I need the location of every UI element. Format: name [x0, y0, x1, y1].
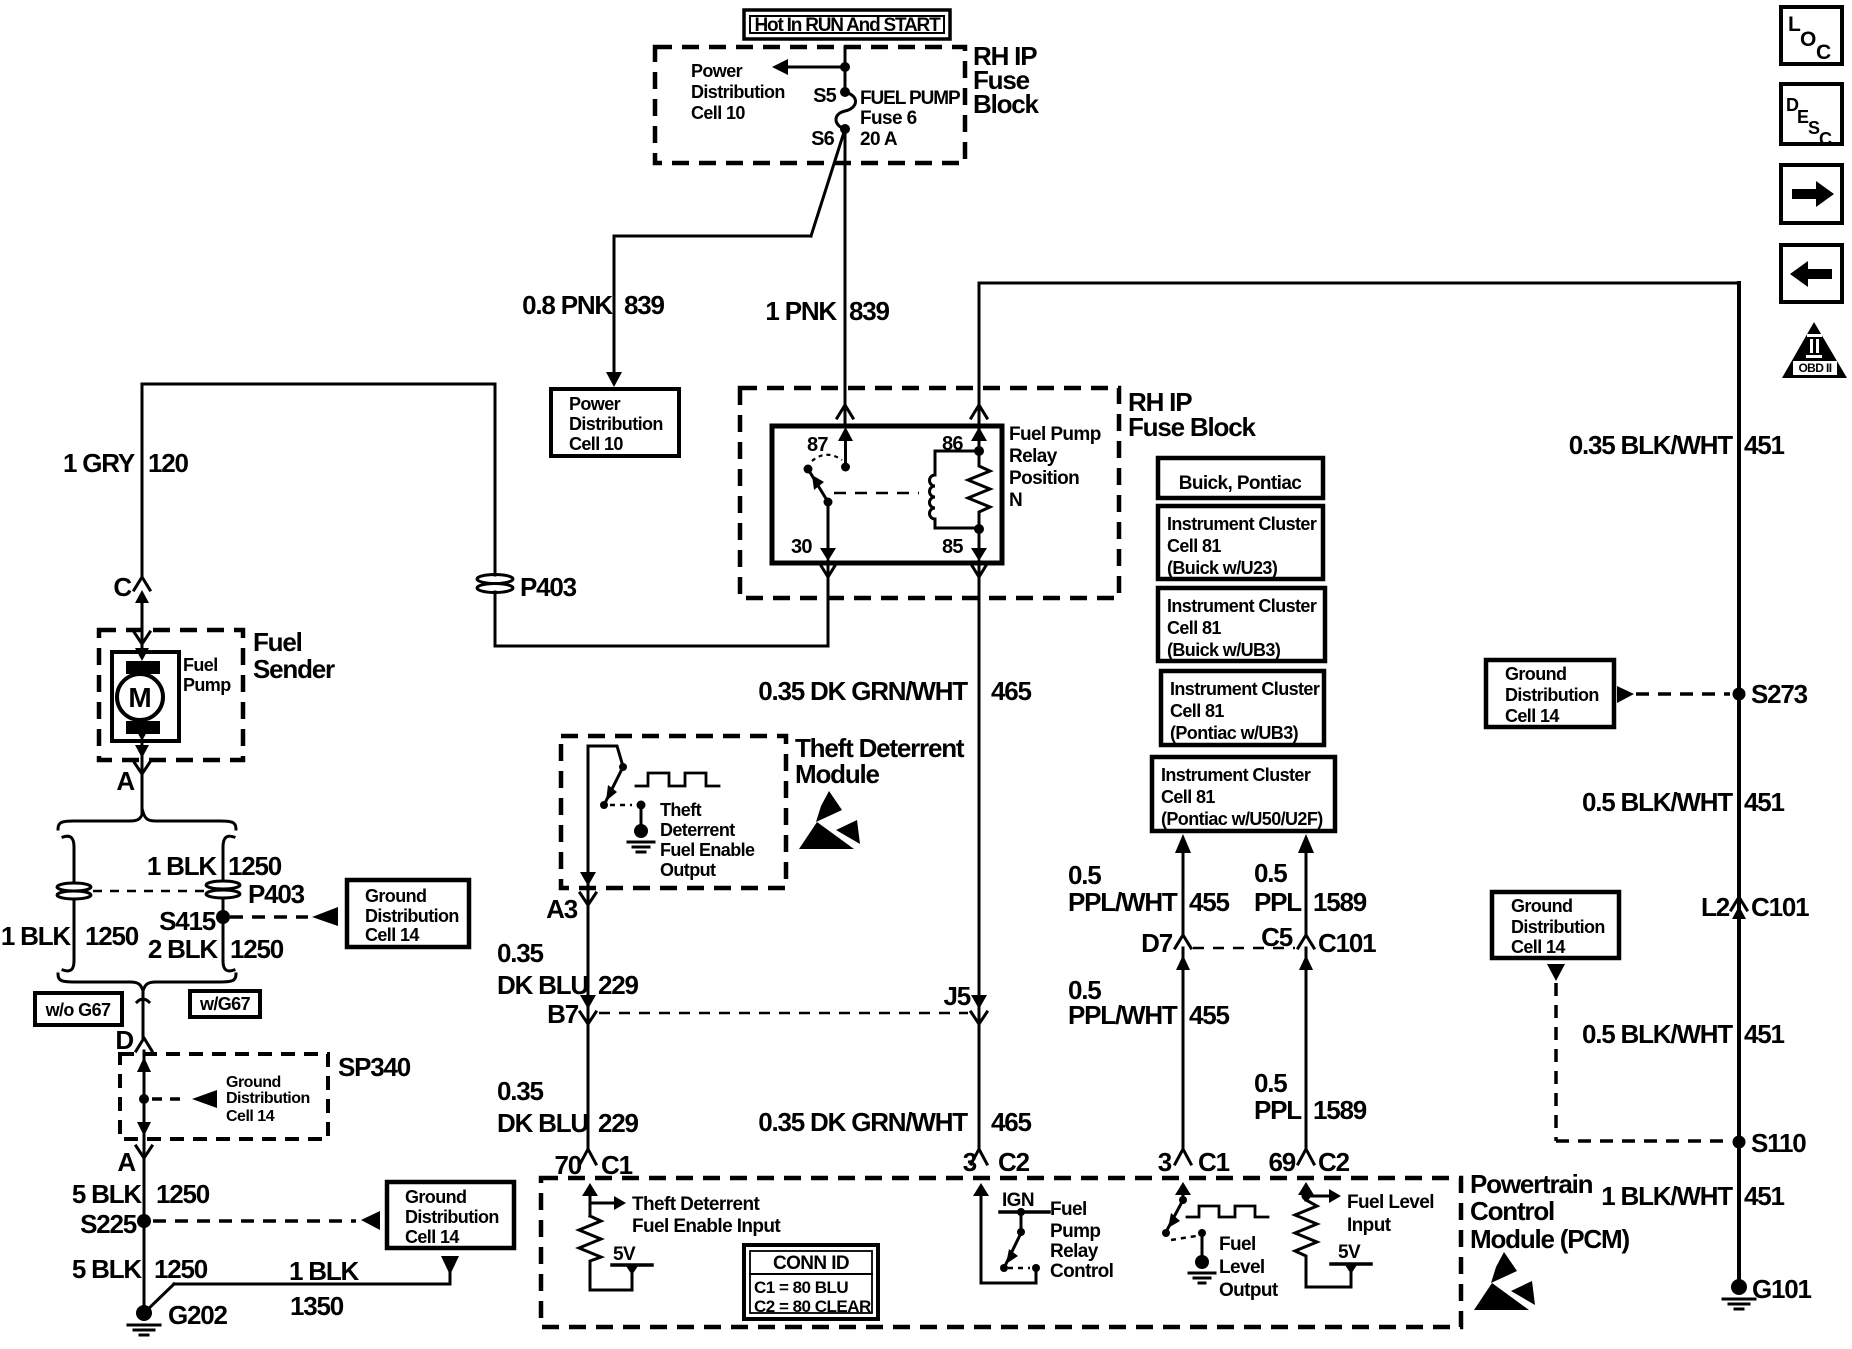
- svg-text:Sender: Sender: [253, 654, 335, 684]
- svg-text:Distribution: Distribution: [405, 1207, 499, 1227]
- pin 3 C2: [963, 1147, 1030, 1177]
- svg-text:S110: S110: [1751, 1128, 1806, 1158]
- wire TDM output to A3: [587, 746, 590, 1150]
- svg-text:0.8 PNK: 0.8 PNK: [522, 290, 613, 320]
- label Fuel Pump Relay Position N: [1009, 424, 1101, 511]
- motor M fuel pump: [112, 652, 179, 741]
- svg-text:FUEL PUMP: FUEL PUMP: [860, 88, 961, 109]
- svg-text:839: 839: [624, 290, 665, 320]
- label 1 BLK 1250 (right top): [147, 851, 282, 881]
- wire relay 30 to P403: [495, 561, 828, 646]
- svg-text:Distribution: Distribution: [569, 414, 663, 434]
- svg-text:Theft Deterrent: Theft Deterrent: [632, 1194, 760, 1215]
- Hot In RUN And START title box: [744, 10, 950, 39]
- ground G101: [1723, 1274, 1812, 1309]
- svg-text:Cell 14: Cell 14: [405, 1227, 459, 1247]
- label Theft Deterrent Fuel Enable Output: [660, 800, 755, 880]
- svg-text:1250: 1250: [156, 1179, 210, 1209]
- svg-text:20 A: 20 A: [860, 129, 898, 150]
- svg-text:Ground: Ground: [365, 886, 426, 906]
- svg-text:Fuel Level: Fuel Level: [1347, 1192, 1434, 1213]
- label 5 BLK 1250 (lower): [72, 1254, 208, 1284]
- fuel level input circuit: [1298, 1182, 1341, 1203]
- box w/G67: [190, 991, 260, 1017]
- label 0.35 BLK/WHT 451: [1569, 430, 1785, 460]
- svg-text:Fuel Enable: Fuel Enable: [660, 840, 755, 860]
- connector A (sender exit): [116, 745, 150, 796]
- connector A3: [546, 872, 596, 924]
- svg-text:(Pontiac w/U50/U2F): (Pontiac w/U50/U2F): [1161, 809, 1323, 829]
- label Fuel Pump Relay Control: [1050, 1199, 1113, 1282]
- svg-text:Distribution: Distribution: [1505, 685, 1599, 705]
- svg-text:J5: J5: [943, 981, 970, 1011]
- connector D: [115, 1025, 152, 1055]
- arrow from box to S225: [361, 1211, 380, 1230]
- svg-text:Theft: Theft: [660, 800, 702, 820]
- svg-text:0.35: 0.35: [497, 938, 544, 968]
- svg-text:C: C: [1816, 41, 1831, 64]
- svg-text:30: 30: [791, 536, 812, 558]
- svg-text:1589: 1589: [1313, 1095, 1367, 1125]
- svg-text:S273: S273: [1751, 679, 1808, 709]
- svg-text:Fuel: Fuel: [1219, 1234, 1256, 1255]
- connector C (fuel sender): [113, 572, 150, 603]
- svg-text:P403: P403: [520, 572, 577, 602]
- svg-text:L2: L2: [1701, 892, 1730, 922]
- TDM output ground: [628, 801, 654, 853]
- svg-text:451: 451: [1744, 1181, 1785, 1211]
- svg-text:465: 465: [991, 676, 1032, 706]
- dashed link S225 to ground dist box: [153, 1219, 356, 1223]
- label 5 BLK 1250 (upper): [72, 1179, 210, 1209]
- svg-text:87: 87: [807, 434, 828, 456]
- svg-text:Distribution: Distribution: [1511, 917, 1605, 937]
- dashed link D7 to C5: [1193, 947, 1295, 950]
- svg-text:0.35 BLK/WHT: 0.35 BLK/WHT: [1569, 430, 1734, 460]
- label Fuel Pump (sender): [183, 655, 231, 695]
- connector P403 (inline): [477, 572, 577, 602]
- connector chevron pin 85 exit: [971, 564, 987, 577]
- svg-text:Cell 81: Cell 81: [1170, 701, 1224, 721]
- svg-text:Input: Input: [1347, 1215, 1392, 1236]
- svg-text:C101: C101: [1318, 928, 1376, 958]
- icon left-arrow button: [1781, 245, 1842, 302]
- pin 86: [942, 427, 987, 456]
- arrow from box to S415: [312, 907, 338, 926]
- svg-text:2 BLK: 2 BLK: [148, 934, 219, 964]
- svg-text:Distribution: Distribution: [226, 1090, 310, 1107]
- svg-text:85: 85: [942, 536, 963, 558]
- svg-text:w/G67: w/G67: [199, 994, 251, 1014]
- svg-text:DK BLU: DK BLU: [497, 1108, 588, 1138]
- svg-text:Cell 14: Cell 14: [1511, 937, 1565, 957]
- label 0.5 PPL 1589 (lower): [1254, 1068, 1367, 1125]
- svg-text:C2: C2: [998, 1147, 1030, 1177]
- svg-text:Pump: Pump: [1050, 1221, 1100, 1242]
- PCM dashed box: [541, 1178, 1461, 1327]
- wire feed into fuse: [844, 47, 847, 92]
- svg-text:Block: Block: [973, 89, 1040, 119]
- svg-text:1 BLK: 1 BLK: [147, 851, 218, 881]
- brace split (top): [58, 812, 236, 829]
- RH IP fuse block (top) dashed box: [655, 47, 965, 163]
- svg-text:(Buick w/U23): (Buick w/U23): [1167, 558, 1278, 578]
- svg-text:C2 = 80 CLEAR: C2 = 80 CLEAR: [754, 1297, 871, 1316]
- svg-text:70: 70: [554, 1150, 581, 1180]
- label 2 BLK 1250: [148, 934, 284, 964]
- svg-text:Fuel Pump: Fuel Pump: [1009, 424, 1101, 445]
- svg-text:Output: Output: [660, 860, 716, 880]
- icon OBD II triangle: [1782, 322, 1847, 378]
- svg-text:Cell 81: Cell 81: [1161, 787, 1215, 807]
- label 1 GRY 120: [63, 448, 189, 478]
- label 0.5 PPL/WHT 455 (lower): [1068, 975, 1230, 1030]
- dashed interconnect J5 to B7: [599, 1012, 968, 1015]
- svg-text:Instrument Cluster: Instrument Cluster: [1170, 679, 1320, 699]
- fuel pump relay control driver: [973, 1183, 1049, 1283]
- arrow from box to S273: [1617, 686, 1634, 703]
- node SP340 splice dot: [139, 1094, 149, 1104]
- svg-text:Module (PCM): Module (PCM): [1470, 1224, 1629, 1254]
- icon right-arrow button: [1781, 165, 1842, 223]
- svg-text:0.5: 0.5: [1254, 1068, 1287, 1098]
- svg-text:Fuel Enable Input: Fuel Enable Input: [632, 1216, 781, 1237]
- svg-text:1 BLK: 1 BLK: [289, 1256, 360, 1286]
- svg-text:C: C: [113, 572, 132, 602]
- svg-text:1250: 1250: [228, 851, 282, 881]
- arrow from box down: [1547, 964, 1565, 981]
- label 1 BLK 1350: [289, 1256, 360, 1321]
- relay mechanical link (dashed): [834, 492, 919, 495]
- square wave symbol (TDM): [636, 773, 719, 786]
- label Power Distribution Cell 10 (in fuse block): [691, 61, 785, 123]
- wire into fuel sender: [141, 598, 144, 652]
- svg-text:Deterrent: Deterrent: [660, 820, 735, 840]
- label Theft Deterrent Fuel Enable Input: [632, 1194, 781, 1237]
- svg-text:5 BLK: 5 BLK: [72, 1179, 143, 1209]
- svg-text:C101: C101: [1751, 892, 1809, 922]
- brace merge (bottom): [58, 974, 236, 991]
- connector inline (left branch): [57, 883, 91, 899]
- svg-text:Distribution: Distribution: [691, 82, 785, 102]
- wire 0.8 PNK 839 to Power Distribution Cell 10: [606, 129, 845, 387]
- wire A to G202: [143, 1136, 146, 1313]
- svg-text:DK BLU: DK BLU: [497, 970, 588, 1000]
- svg-text:Instrument Cluster: Instrument Cluster: [1167, 514, 1317, 534]
- svg-text:Ground: Ground: [226, 1074, 281, 1091]
- wire left ground branch: [63, 836, 74, 971]
- dashed link to TDM output ground: [610, 804, 632, 807]
- svg-text:Relay: Relay: [1009, 446, 1058, 467]
- svg-text:69: 69: [1268, 1147, 1295, 1177]
- wire through SP340: [143, 1051, 146, 1136]
- svg-text:1250: 1250: [85, 921, 139, 951]
- box Ground Distribution Cell 14 (S415): [347, 880, 469, 947]
- svg-text:Control: Control: [1050, 1261, 1113, 1282]
- svg-text:Distribution: Distribution: [365, 906, 459, 926]
- svg-text:Cell 10: Cell 10: [569, 434, 623, 454]
- svg-text:P403: P403: [248, 879, 305, 909]
- connector chevron pin 86 entry: [971, 405, 987, 418]
- svg-text:C: C: [1819, 129, 1832, 149]
- node S415: [159, 906, 230, 936]
- svg-text:1 BLK: 1 BLK: [1, 921, 72, 951]
- wire PPL/WHT 455 down to PCM: [1182, 948, 1185, 1150]
- label 1 BLK 1250 (left): [1, 921, 139, 951]
- svg-text:C5: C5: [1261, 922, 1293, 952]
- wire relay 86 up and across to right trunk: [979, 283, 1739, 438]
- svg-text:Cell 10: Cell 10: [691, 103, 745, 123]
- square wave symbol (fuel level output): [1187, 1206, 1268, 1217]
- label 0.35 DK GRN/WHT 465 (upper): [758, 676, 1031, 706]
- svg-text:G101: G101: [1752, 1274, 1812, 1304]
- svg-text:0.5 BLK/WHT: 0.5 BLK/WHT: [1582, 787, 1733, 817]
- CONN ID table: [744, 1245, 878, 1319]
- wire 1 BLK 1350 from box to G202: [144, 1256, 459, 1313]
- dashed link to S273: [1636, 692, 1730, 696]
- svg-text:451: 451: [1744, 787, 1785, 817]
- svg-text:PPL/WHT: PPL/WHT: [1068, 887, 1178, 917]
- connector C5 C101: [1261, 922, 1376, 970]
- svg-text:C1 = 80 BLU: C1 = 80 BLU: [754, 1278, 848, 1297]
- svg-text:C1: C1: [601, 1150, 633, 1180]
- arrow to SP340 splice: [192, 1090, 217, 1108]
- fuel level output driver: [1162, 1182, 1215, 1283]
- svg-text:w/o G67: w/o G67: [45, 1000, 111, 1020]
- relay coil: [930, 451, 980, 528]
- svg-text:Control: Control: [1470, 1196, 1554, 1226]
- relay switch blade: [804, 455, 843, 507]
- label Powertrain Control Module (PCM): [1470, 1169, 1629, 1254]
- connector A (below SP340): [117, 1122, 152, 1177]
- connector chevron pin 87 entry: [837, 405, 853, 418]
- connector D7: [1141, 928, 1191, 970]
- node J5 arrow and chevron: [943, 981, 987, 1024]
- label 0.5 PPL 1589 (upper): [1254, 858, 1367, 917]
- svg-text:465: 465: [991, 1107, 1032, 1137]
- svg-text:Fuse Block: Fuse Block: [1128, 412, 1256, 442]
- svg-text:Cell 81: Cell 81: [1167, 536, 1221, 556]
- box Power Distribution Cell 10: [551, 389, 679, 456]
- connector chevron pin 30 exit: [820, 564, 836, 577]
- arrow into fuel pump: [135, 648, 149, 661]
- svg-text:Ground: Ground: [1511, 896, 1572, 916]
- theft deterrent fuel enable input circuit: [582, 1183, 626, 1216]
- svg-text:Fuel: Fuel: [253, 627, 302, 657]
- svg-text:Ground: Ground: [1505, 664, 1566, 684]
- svg-text:1589: 1589: [1313, 887, 1367, 917]
- wire pump to A: [141, 741, 144, 814]
- connector L2 C101: [1701, 892, 1809, 922]
- label 1 PNK 839: [765, 296, 889, 326]
- label 0.35 DK BLU 229 (lower): [497, 1076, 639, 1138]
- svg-text:PPL: PPL: [1254, 1095, 1302, 1125]
- dashed link between inline connectors: [93, 890, 204, 893]
- svg-text:1 GRY: 1 GRY: [63, 448, 135, 478]
- node S225: [80, 1209, 151, 1239]
- node S273: [1733, 679, 1808, 709]
- svg-text:N: N: [1009, 490, 1022, 511]
- svg-text:0.35 DK GRN/WHT: 0.35 DK GRN/WHT: [758, 1107, 968, 1137]
- TDM output driver switch: [588, 746, 627, 809]
- label RH IP Fuse Block (relay): [1128, 387, 1256, 442]
- svg-text:Output: Output: [1219, 1280, 1279, 1301]
- svg-text:Position: Position: [1009, 468, 1079, 489]
- svg-text:0.35: 0.35: [497, 1076, 544, 1106]
- svg-text:Pump: Pump: [183, 675, 231, 695]
- svg-text:Module: Module: [795, 759, 880, 789]
- node B7 arrow and chevron: [547, 995, 596, 1029]
- svg-text:A: A: [117, 1147, 136, 1177]
- Fuel Sender dashed box: [99, 630, 243, 760]
- label RH IP Fuse Block (top): [973, 41, 1040, 119]
- SP340 dashed box: [120, 1052, 411, 1139]
- dashed link S415 to ground dist box: [230, 915, 308, 919]
- wire PPL 1589 down to PCM: [1305, 948, 1308, 1150]
- svg-text:Buick, Pontiac: Buick, Pontiac: [1179, 473, 1303, 494]
- 5V supply (69 C2): [1331, 1242, 1371, 1274]
- svg-text:A3: A3: [546, 894, 578, 924]
- svg-text:B7: B7: [547, 999, 579, 1029]
- label 0.35 DK BLU 229 (upper): [497, 938, 639, 1000]
- wire 0.35 DK GRN/WHT 465 relay 85 to PCM: [978, 561, 981, 1150]
- icon DESC button: [1781, 84, 1842, 149]
- RH IP fuse block (relay) dashed box: [740, 388, 1119, 598]
- svg-text:A: A: [116, 766, 135, 796]
- svg-text:Power: Power: [569, 394, 621, 414]
- dashed link SP340 to ground dist label: [152, 1097, 188, 1101]
- svg-text:5V: 5V: [613, 1244, 636, 1265]
- svg-text:455: 455: [1189, 1000, 1230, 1030]
- arrow to power distribution (left): [772, 59, 845, 75]
- pin 87: [807, 427, 853, 472]
- label Ground Distribution Cell 14 (SP340): [226, 1074, 310, 1125]
- label Fuel Sender: [253, 627, 335, 684]
- dashed link to S110: [1556, 983, 1730, 1141]
- svg-text:3: 3: [963, 1147, 977, 1177]
- box Ground Distribution Cell 14 (S225): [387, 1182, 514, 1248]
- svg-text:D7: D7: [1141, 928, 1173, 958]
- node S6: [811, 124, 850, 150]
- svg-text:Fuse 6: Fuse 6: [860, 108, 917, 129]
- svg-text:D: D: [115, 1025, 133, 1055]
- svg-text:Instrument Cluster: Instrument Cluster: [1161, 765, 1311, 785]
- svg-text:M: M: [128, 682, 151, 713]
- svg-text:Powertrain: Powertrain: [1470, 1169, 1593, 1199]
- svg-text:Cell 14: Cell 14: [1505, 706, 1559, 726]
- label 0.5 BLK/WHT 451 (lower): [1582, 1019, 1785, 1049]
- wire right ground branch: [223, 836, 234, 971]
- svg-text:S6: S6: [811, 128, 835, 150]
- svg-text:SP340: SP340: [338, 1052, 411, 1082]
- svg-text:1350: 1350: [290, 1291, 344, 1321]
- box Ground Distribution Cell 14 (S110): [1492, 892, 1619, 958]
- box Instrument Cluster Cell 81 (Buick w/U23): [1158, 506, 1323, 579]
- node S5: [813, 85, 850, 107]
- svg-text:455: 455: [1189, 887, 1230, 917]
- svg-text:Fuel: Fuel: [183, 655, 218, 675]
- svg-text:3: 3: [1158, 1147, 1172, 1177]
- label Theft Deterrent Module: [795, 733, 965, 789]
- wire 0.5 PPL/WHT 455 (cluster feed): [1175, 834, 1191, 934]
- pin 69 C2: [1268, 1147, 1349, 1177]
- svg-text:IGN: IGN: [1002, 1190, 1034, 1211]
- resistor (69 C2 pull-up): [1295, 1200, 1351, 1287]
- label 0.5 BLK/WHT 451 (upper): [1582, 787, 1785, 817]
- box Instrument Cluster Cell 81 (Buick w/UB3): [1158, 588, 1325, 661]
- svg-text:1250: 1250: [230, 934, 284, 964]
- svg-text:839: 839: [849, 296, 890, 326]
- svg-text:120: 120: [148, 448, 189, 478]
- resistor (70 C1 pull-up): [579, 1216, 632, 1290]
- box Instrument Cluster Cell 81 (Pontiac w/U50/U2F): [1152, 757, 1335, 831]
- svg-text:5 BLK: 5 BLK: [72, 1254, 143, 1284]
- node S5 junction dot: [840, 62, 850, 72]
- label Fuel Level Input: [1347, 1192, 1434, 1236]
- svg-text:Cell 14: Cell 14: [226, 1108, 275, 1125]
- svg-text:451: 451: [1744, 1019, 1785, 1049]
- box Instrument Cluster Cell 81 (Pontiac w/UB3): [1161, 671, 1324, 745]
- relay coil resistor: [968, 451, 990, 534]
- svg-text:0.5: 0.5: [1254, 858, 1287, 888]
- arrow up inside SP340: [137, 1057, 151, 1072]
- svg-text:0.5: 0.5: [1068, 860, 1101, 890]
- ground G202: [128, 1300, 228, 1335]
- wire 0.5 PPL 1589 (cluster feed): [1298, 834, 1314, 934]
- svg-text:229: 229: [598, 970, 639, 1000]
- svg-text:Cell 81: Cell 81: [1167, 618, 1221, 638]
- svg-text:Hot In RUN And START: Hot In RUN And START: [755, 15, 942, 36]
- ESD symbol (TDM): [799, 791, 860, 849]
- svg-text:Cell 14: Cell 14: [365, 925, 419, 945]
- svg-text:1 BLK/WHT: 1 BLK/WHT: [1601, 1181, 1733, 1211]
- ESD symbol (PCM): [1474, 1252, 1535, 1310]
- svg-text:229: 229: [598, 1108, 639, 1138]
- svg-text:(Pontiac w/UB3): (Pontiac w/UB3): [1170, 723, 1299, 743]
- relay K Fuel Pump Relay box: [772, 426, 1002, 563]
- wire right trunk BLK/WHT 451: [1737, 283, 1741, 1287]
- box w/o G67: [35, 993, 122, 1025]
- svg-text:Fuel: Fuel: [1050, 1199, 1087, 1220]
- pin 85: [942, 529, 987, 561]
- connector chevron at sender entry: [134, 632, 150, 644]
- svg-text:0.35 DK GRN/WHT: 0.35 DK GRN/WHT: [758, 676, 968, 706]
- svg-text:S415: S415: [159, 906, 216, 936]
- Theft Deterrent Module dashed box: [561, 736, 786, 888]
- 5V supply (70 C1): [612, 1244, 652, 1275]
- svg-text:O: O: [1800, 28, 1816, 51]
- wire 1 PNK 839: [844, 129, 847, 426]
- svg-text:PPL/WHT: PPL/WHT: [1068, 1000, 1178, 1030]
- svg-text:1250: 1250: [154, 1254, 208, 1284]
- svg-text:451: 451: [1744, 430, 1785, 460]
- svg-text:S5: S5: [813, 85, 837, 107]
- svg-text:Level: Level: [1219, 1257, 1265, 1278]
- connector P403 (right branch): [206, 879, 305, 909]
- svg-text:Ground: Ground: [405, 1187, 466, 1207]
- svg-text:0.5 BLK/WHT: 0.5 BLK/WHT: [1582, 1019, 1733, 1049]
- label 0.5 PPL/WHT 455 (upper): [1068, 860, 1230, 917]
- svg-text:1 PNK: 1 PNK: [765, 296, 837, 326]
- wire 1 GRY 120 to fuel sender: [142, 384, 495, 578]
- icon LOC button: [1781, 7, 1842, 64]
- label Fuel Level Output: [1219, 1234, 1279, 1301]
- label 0.8 PNK 839: [522, 290, 664, 320]
- node S110: [1733, 1128, 1807, 1158]
- svg-text:CONN ID: CONN ID: [773, 1253, 849, 1274]
- svg-text:Power: Power: [691, 61, 743, 81]
- svg-text:G202: G202: [168, 1300, 228, 1330]
